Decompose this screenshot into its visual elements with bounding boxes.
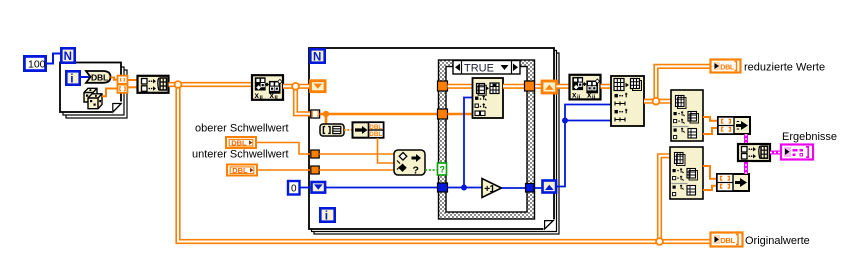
wire S1 mean to bundle B1 [703,117,718,121]
indicator Ergebnisse (cluster array) [781,145,813,160]
svg-text:DBL: DBL [369,124,382,131]
control unterer Schwellwert (DBL) [227,165,257,176]
case tunnel count in (blue) [438,183,448,192]
svg-text:DBL: DBL [369,131,382,138]
junction dot on row wire [323,111,329,117]
numeric constant 0 [288,181,300,195]
svg-text:DBL: DBL [232,166,248,175]
wire dice to tunnel T1b [102,89,118,97]
svg-text:ij: ij [275,95,279,101]
tunnel lower threshold [311,166,319,174]
2D array wire Xij2 to array subset [601,84,612,89]
indexing tunnel T1b [118,85,128,93]
build array BA1 [138,76,169,93]
blue wire +1 to right tunnel [502,187,543,189]
random number dice [84,88,102,108]
2D array wire branch down to index tunnel [296,86,312,114]
wire unterer to tunnel [257,169,311,171]
in range and coerce [394,150,425,177]
wire lower tunnel to in-range [319,169,394,171]
build array BA2 (clusters) [738,144,770,161]
case structure (hatched border) [439,60,535,219]
wire T1b to build array [128,86,138,88]
blue junction dot after loop [562,118,568,124]
case tunnel row in (1D) [438,109,448,119]
svg-text:N: N [313,52,321,64]
svg-text:100: 100 [28,59,46,71]
converter with DBL DBL outputs [353,122,384,138]
2D array wire BA1 to Xij1 [169,82,253,87]
svg-text:0: 0 [291,184,297,195]
blue wire loop out riser [556,105,611,187]
svg-text:i: i [70,72,73,86]
svg-text:unterer Schwellwert: unterer Schwellwert [192,149,289,161]
tunnel upper threshold [311,150,319,158]
2D array wire AS1 out to stat icon S1 [644,99,671,104]
iteration terminal i (FL2) [320,208,334,222]
wire junction ring J4 [656,238,663,245]
array subset AS1 [611,76,644,126]
wire 0 to blue shift register [300,187,312,189]
boolean wire to case selector [425,169,438,171]
2D array wire into case icon [448,84,474,89]
svg-text:?: ? [413,165,419,177]
cluster wire B2 to build array BA2 [744,161,748,174]
wire junction ring J2 [292,83,299,90]
svg-text:ij: ij [577,95,581,101]
wire junction ring J1 [175,81,182,88]
svg-text:DBL: DBL [720,236,735,245]
svg-text:DBL: DBL [231,138,247,147]
subVI Xij2 (reduce matrix) [570,75,601,101]
numeric constant 100 [24,56,45,70]
wire converter to in-range x input [378,138,395,163]
wire upper tunnel to in-range [319,153,394,155]
blue junction dot [461,185,467,191]
wire i to DBL [81,76,90,78]
wire DBL to tunnel T1a [111,78,119,80]
wire S2 mean to bundle B2 [703,166,717,179]
count terminal N (FL2) [310,49,324,63]
case right tunnel (orange) [525,81,535,91]
svg-text:Ergebnisse: Ergebnisse [782,131,837,143]
svg-text:ij: ij [592,95,596,101]
case selector terminal ? [438,163,447,175]
count terminal N (FL1) [61,48,74,63]
svg-text:+1: +1 [484,184,495,195]
blue wire shift register to case [326,187,439,189]
for loop FL2 (main, stacked frames) [309,48,559,234]
wire 100 to N [46,54,60,64]
cluster array wire BA2 to Ergebnisse [770,151,781,155]
FL1 folded corner [112,102,122,114]
increment +1 [482,179,502,198]
FL2 folded corner [544,220,556,231]
left shift register (blue) [312,182,326,193]
blue wire inside case [448,187,483,189]
svg-text:oberer Schwellwert: oberer Schwellwert [195,123,289,135]
svg-text:TRUE: TRUE [464,63,494,75]
svg-text:N: N [64,51,72,63]
subVI insert into array (case TRUE) [473,78,504,118]
case right tunnel (blue) [526,184,535,193]
coercion dotted wire IA1 to converter [344,129,352,131]
wire S2 sd to bundle B2 [703,186,717,190]
svg-text:reduzierte Werte: reduzierte Werte [744,62,825,74]
wire junction ring J3 [653,98,660,105]
index array IA1 [320,124,344,136]
svg-text:DBL: DBL [91,72,108,82]
for loop FL1 (random data, stacked frames) [60,63,127,119]
iteration terminal i (FL1) [66,71,79,85]
svg-text:ij: ij [260,95,264,101]
right shift register (orange) [542,81,557,93]
left shift register (orange) [311,81,326,92]
index tunnel on FL2 left edge [311,110,320,118]
indicator Originalwerte [711,233,743,247]
indexing tunnel T1a [118,76,128,84]
2D array riser to reduzierte Werte [656,66,710,101]
1D row wire tunnel to case [320,113,438,116]
cluster wire B1 to build array BA2 [744,134,748,144]
statistics subVI S1 (reduced) [671,90,703,141]
2D array wire case icon to right tunnel [503,84,541,89]
bundle B1 [718,117,750,134]
control oberer Schwellwert (DBL) [226,137,256,148]
1D row wire into case icon [448,113,474,116]
2D array wire SR to Xij2 [557,84,570,89]
2D array riser from bottom bus to stat icon S2 [660,156,671,242]
case selector label "TRUE" [453,61,520,75]
svg-text:i: i [325,209,328,223]
case tunnel array in (2D) [438,81,448,91]
svg-text:DBL: DBL [720,62,735,71]
DBL indicator terminal (FL1) [86,71,111,83]
bundle B2 [717,174,749,191]
wire oberer to tunnel [256,143,311,155]
svg-text:Originalwerte: Originalwerte [745,235,810,247]
2D array wire drop to bottom bus [178,85,710,242]
blue branch up into case icon [464,98,473,188]
statistics subVI S2 (original) [670,147,703,199]
blue branch to array subset length [565,120,611,122]
right shift register (blue) [543,181,557,193]
subVI Xij1 (reduce matrix) [252,75,283,101]
wire S1 sd to bundle B1 [703,128,718,134]
2D array wire Xij1 to left shift register [283,84,311,89]
svg-text:?: ? [440,165,446,175]
indicator reduzierte Werte [711,60,741,73]
wire T1a to build array [128,79,138,81]
branch down to index array [325,114,328,124]
